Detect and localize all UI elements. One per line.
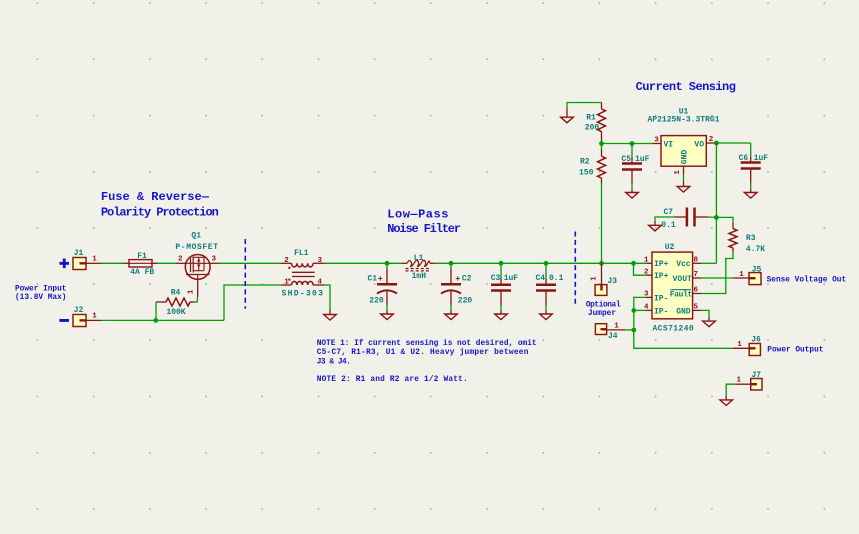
svg-text:F1: F1 xyxy=(137,252,147,261)
svg-text:J6: J6 xyxy=(751,336,761,345)
svg-text:(13.8V Max): (13.8V Max) xyxy=(15,294,66,302)
svg-text:220: 220 xyxy=(369,296,384,305)
svg-text:1uF: 1uF xyxy=(635,155,650,164)
svg-text:3: 3 xyxy=(212,255,217,263)
svg-text:R4: R4 xyxy=(171,289,181,298)
svg-text:U2: U2 xyxy=(665,243,675,252)
svg-text:1: 1 xyxy=(737,377,742,385)
svg-text:1uF: 1uF xyxy=(504,274,519,283)
svg-text:J2: J2 xyxy=(74,306,84,315)
svg-text:3: 3 xyxy=(654,136,659,144)
svg-text:J3: J3 xyxy=(608,277,618,286)
svg-text:J7: J7 xyxy=(751,371,761,380)
svg-text:R1: R1 xyxy=(586,114,596,123)
svg-text:C2: C2 xyxy=(462,275,472,284)
svg-text:FL1: FL1 xyxy=(294,249,309,258)
svg-text:Sense Voltage Out: Sense Voltage Out xyxy=(767,276,847,284)
svg-text:1: 1 xyxy=(737,341,742,349)
svg-text:0.1: 0.1 xyxy=(549,274,564,283)
svg-text:C4: C4 xyxy=(536,274,546,283)
svg-text:J3 & J4.: J3 & J4. xyxy=(317,358,351,366)
svg-text:2: 2 xyxy=(178,255,183,263)
svg-text:100K: 100K xyxy=(166,308,185,317)
svg-text:VI: VI xyxy=(664,141,674,150)
svg-text:GND: GND xyxy=(680,150,689,165)
svg-text:IP+: IP+ xyxy=(654,272,669,281)
svg-text:+: + xyxy=(378,274,383,284)
svg-text:4: 4 xyxy=(317,279,322,287)
svg-text:VO: VO xyxy=(694,141,704,150)
svg-text:Jumper: Jumper xyxy=(588,310,616,318)
svg-text:1: 1 xyxy=(188,289,196,294)
svg-text:1: 1 xyxy=(644,257,649,265)
svg-text:NOTE 1: If current sensing is: NOTE 1: If current sensing is not desire… xyxy=(317,340,537,348)
svg-text:IP-: IP- xyxy=(654,307,668,316)
svg-text:6: 6 xyxy=(694,287,699,295)
svg-text:SHD-303: SHD-303 xyxy=(282,290,325,299)
svg-text:1: 1 xyxy=(590,276,598,281)
svg-text:R3: R3 xyxy=(746,234,756,243)
svg-text:Optional: Optional xyxy=(586,301,621,309)
svg-text:Fuse & Reverse—: Fuse & Reverse— xyxy=(101,190,210,204)
svg-text:J1: J1 xyxy=(74,249,84,258)
svg-text:1: 1 xyxy=(674,170,682,175)
svg-text:Low—Pass: Low—Pass xyxy=(387,207,449,221)
svg-text:NOTE 2: R1 and R2 are 1/2 Watt: NOTE 2: R1 and R2 are 1/2 Watt. xyxy=(317,376,468,384)
svg-text:150: 150 xyxy=(579,168,594,177)
svg-text:5: 5 xyxy=(694,304,699,312)
svg-text:1: 1 xyxy=(739,271,744,279)
svg-text:3: 3 xyxy=(317,257,322,265)
svg-text:C7: C7 xyxy=(663,208,673,217)
svg-text:J5: J5 xyxy=(752,265,762,274)
svg-text:AP2125N-3.3TRG1: AP2125N-3.3TRG1 xyxy=(647,116,719,125)
svg-text:7: 7 xyxy=(694,271,699,279)
svg-text:4A FB: 4A FB xyxy=(130,268,154,277)
svg-text:200: 200 xyxy=(585,124,600,133)
svg-text:2: 2 xyxy=(284,257,289,265)
svg-text:Fault: Fault xyxy=(670,291,693,300)
svg-text:Vcc: Vcc xyxy=(676,260,691,269)
svg-text:220: 220 xyxy=(458,296,473,305)
svg-text:C6: C6 xyxy=(739,154,749,163)
svg-text:IP+: IP+ xyxy=(654,260,669,269)
svg-text:J4: J4 xyxy=(608,332,618,341)
svg-text:R2: R2 xyxy=(580,157,590,166)
svg-text:IP-: IP- xyxy=(654,294,668,303)
svg-text:C5-C7, R1-R3, U1 & U2. Heavy j: C5-C7, R1-R3, U1 & U2. Heavy jumper betw… xyxy=(317,349,529,357)
svg-text:L1: L1 xyxy=(414,254,424,263)
svg-text:2: 2 xyxy=(709,136,714,144)
svg-text:1uF: 1uF xyxy=(754,154,769,163)
svg-text:Current Sensing: Current Sensing xyxy=(636,80,736,94)
svg-text:Q1: Q1 xyxy=(191,231,201,240)
svg-text:1: 1 xyxy=(284,279,289,287)
svg-text:ACS71240: ACS71240 xyxy=(652,324,694,333)
svg-text:1mH: 1mH xyxy=(412,272,427,281)
svg-text:C1: C1 xyxy=(368,275,378,284)
svg-text:1: 1 xyxy=(92,313,97,321)
svg-text:Power Input: Power Input xyxy=(15,286,66,294)
svg-text:VOUT: VOUT xyxy=(673,275,692,284)
svg-text:GND: GND xyxy=(676,307,691,316)
svg-text:C5: C5 xyxy=(621,155,631,164)
svg-text:C3: C3 xyxy=(491,274,501,283)
svg-text:4.7K: 4.7K xyxy=(746,245,765,254)
svg-text:P-MOSFET: P-MOSFET xyxy=(175,243,218,252)
svg-text:0.1: 0.1 xyxy=(661,221,676,230)
svg-text:+: + xyxy=(455,274,460,284)
svg-text:Noise Filter: Noise Filter xyxy=(387,222,461,236)
svg-text:8: 8 xyxy=(694,257,699,265)
svg-text:1: 1 xyxy=(92,256,97,264)
svg-text:Polarity Protection: Polarity Protection xyxy=(101,206,219,220)
svg-text:1: 1 xyxy=(614,322,619,330)
svg-text:Power Output: Power Output xyxy=(767,347,823,355)
